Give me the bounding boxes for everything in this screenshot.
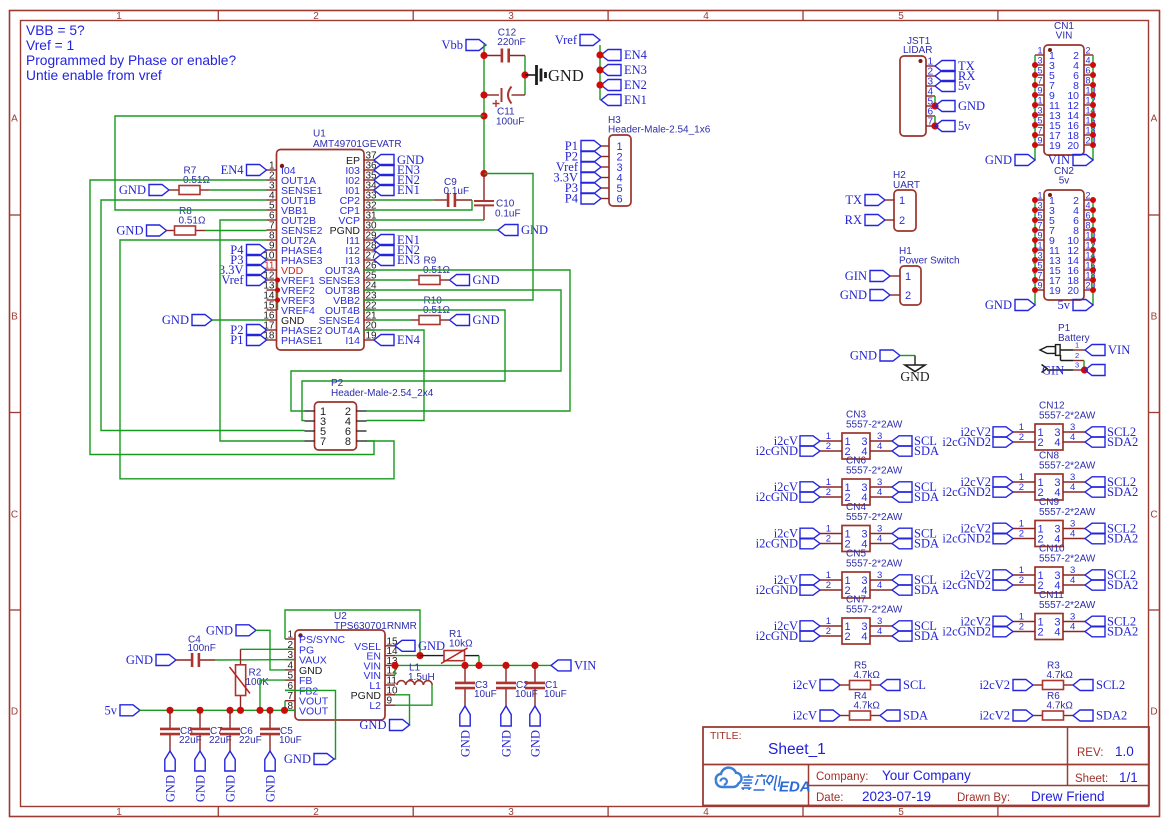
net flag GND below C2 <box>500 706 514 757</box>
svg-text:Vref: Vref <box>221 273 244 287</box>
note text block <box>26 23 236 83</box>
svg-text:VIN: VIN <box>1108 343 1130 357</box>
svg-text:LIDAR: LIDAR <box>903 45 932 56</box>
svg-text:C: C <box>1150 510 1157 521</box>
svg-text:P1: P1 <box>230 333 243 347</box>
svg-text:4: 4 <box>1070 529 1075 540</box>
net flag 5v at JST1 pin7 <box>935 119 971 133</box>
svg-text:Sheet_1: Sheet_1 <box>768 741 826 758</box>
net flags i2cV2/i2cGND2 at CN10 <box>942 568 1013 592</box>
wire R8 to U1 pin7 <box>205 230 267 232</box>
H1 pins 1-2 <box>890 271 911 302</box>
net flags i2cV/i2cGND at CN6 <box>756 480 820 504</box>
svg-text:VIN: VIN <box>574 658 596 672</box>
svg-text:GND: GND <box>116 224 143 238</box>
wire CN2 left bus <box>1034 200 1036 305</box>
svg-text:i2cV: i2cV <box>793 678 817 692</box>
label H3 value <box>608 125 711 136</box>
svg-text:GND: GND <box>459 730 473 757</box>
svg-text:VIN: VIN <box>1048 153 1070 167</box>
CN6 pins 1-4 <box>820 477 892 504</box>
P1 pin numbers <box>1075 341 1079 370</box>
svg-text:U1: U1 <box>313 129 326 140</box>
svg-text:i2cGND: i2cGND <box>756 444 798 458</box>
svg-text:i2cGND: i2cGND <box>756 629 798 643</box>
svg-text:19: 19 <box>366 331 378 342</box>
CN11 pins 1-4 <box>1013 612 1085 639</box>
title block Date label <box>816 792 844 804</box>
net flag P1 at H3 pin 1 <box>565 139 601 153</box>
svg-text:Battery: Battery <box>1058 333 1090 344</box>
connector CN11 5557-2*2AW <box>1035 614 1063 640</box>
P1 pin3 lead <box>1073 369 1085 371</box>
svg-text:GND: GND <box>164 775 178 802</box>
H3 pin 5 number <box>617 183 623 195</box>
svg-text:i2cGND2: i2cGND2 <box>942 578 991 592</box>
capacitor C8 22uF <box>160 710 202 751</box>
junction VREF2 <box>275 287 280 292</box>
net flags SCL/SDA at CN6 <box>892 480 939 504</box>
net flags SCL/SDA at CN5 <box>892 573 939 597</box>
connector CN8 5557-2*2AW <box>1035 474 1063 500</box>
CN7 pins 1-4 <box>820 616 892 643</box>
svg-text:3: 3 <box>1075 361 1079 370</box>
svg-text:7: 7 <box>320 436 326 448</box>
svg-text:5v: 5v <box>1059 176 1070 187</box>
wire C10 bottom to VCP <box>374 219 484 221</box>
wire JST1 pin4-5 tie <box>934 96 936 106</box>
svg-text:6: 6 <box>617 194 623 206</box>
svg-text:0.1uF: 0.1uF <box>495 209 521 220</box>
resistor R2 100K <box>230 649 270 710</box>
svg-text:1: 1 <box>1037 191 1042 201</box>
svg-text:VIN: VIN <box>1056 31 1073 42</box>
junction C7 top <box>196 707 203 714</box>
junction Vbb wire to U1 <box>480 112 487 119</box>
net flag P4 at H3 pin 6 <box>565 192 601 206</box>
svg-text:GND: GND <box>473 273 500 287</box>
net flag P4 at U1 pin9 <box>230 243 266 257</box>
wire U1 pin6 to P2 pin7 <box>220 220 305 441</box>
svg-text:SCL: SCL <box>903 678 926 692</box>
wire JST1 pin6-7 tie <box>934 116 936 126</box>
CN8 pins 1-4 <box>1013 472 1085 499</box>
label CN7 value <box>846 605 903 616</box>
svg-text:5: 5 <box>1037 211 1042 221</box>
svg-text:10kΩ: 10kΩ <box>449 639 473 650</box>
svg-text:5: 5 <box>898 807 904 818</box>
wire U1 PGND to GND flag <box>374 229 498 231</box>
svg-text:4: 4 <box>877 580 882 591</box>
capacitor C5 10uF <box>260 710 302 751</box>
svg-text:SDA2: SDA2 <box>1107 435 1138 449</box>
title block TITLE label <box>710 730 742 742</box>
svg-text:4: 4 <box>1054 437 1060 449</box>
net flag P2 at H3 pin 2 <box>565 150 601 164</box>
junction U2 VIN pin13 <box>391 662 398 669</box>
net flag GND at R7 <box>119 183 169 197</box>
svg-text:SDA2: SDA2 <box>1107 578 1138 592</box>
svg-text:2: 2 <box>1038 437 1044 449</box>
title drawn by value <box>1031 789 1105 804</box>
net flag EN2 at U1 pin28 <box>374 243 420 257</box>
svg-text:1: 1 <box>1075 341 1079 350</box>
svg-text:Your Company: Your Company <box>882 768 971 783</box>
svg-text:2023-07-19: 2023-07-19 <box>862 789 931 804</box>
svg-text:4: 4 <box>1070 482 1075 493</box>
net flag EN1 at U1 pin34 <box>374 183 420 197</box>
net flags i2cV2/i2cGND2 at CN11 <box>942 615 1013 639</box>
capacitor C4 100nF <box>176 635 216 668</box>
wire Vref-EN chain <box>599 45 601 100</box>
svg-text:5: 5 <box>898 11 904 22</box>
net flag EN2 (chain) <box>601 78 647 92</box>
svg-text:SDA: SDA <box>914 629 939 643</box>
wire VREF1-VREF4 tie <box>277 280 279 310</box>
net flags i2cV2/i2cGND2 at CN12 <box>942 425 1013 449</box>
junction FB rail <box>256 707 263 714</box>
net flags i2cV/i2cGND at CN5 <box>756 573 820 597</box>
svg-text:PHASE1: PHASE1 <box>281 335 323 347</box>
inductor L1 1.5uH <box>397 663 435 686</box>
connector JST1 LIDAR <box>900 56 926 136</box>
svg-text:EN1: EN1 <box>624 93 647 107</box>
svg-text:AMT49701GEVATR: AMT49701GEVATR <box>313 139 402 150</box>
net flag Vbb <box>441 38 486 52</box>
net flag i2cV2 at R6 <box>979 709 1033 723</box>
svg-text:GND: GND <box>359 718 386 732</box>
svg-text:EN3: EN3 <box>397 253 420 267</box>
title rev value 1.0 <box>1115 744 1134 759</box>
svg-text:6: 6 <box>1086 211 1091 221</box>
title block Drawn By label <box>957 792 1010 804</box>
title block REV label <box>1077 747 1103 759</box>
label CN3 value <box>846 420 903 431</box>
svg-text:i2cGND2: i2cGND2 <box>942 625 991 639</box>
wire U1 pin25 to R9 <box>374 279 411 281</box>
net flags SCL2/SDA2 at CN8 <box>1085 475 1138 499</box>
svg-text:GND: GND <box>194 775 208 802</box>
net flags SCL/SDA at CN4 <box>892 527 939 551</box>
wire CN2 right bus <box>1092 200 1094 305</box>
net flag P3 at H3 pin 5 <box>565 181 601 195</box>
svg-text:5557-2*2AW: 5557-2*2AW <box>1039 600 1096 611</box>
net flag GND at C4 <box>126 653 176 667</box>
svg-text:1.5uH: 1.5uH <box>408 672 435 683</box>
svg-text:C: C <box>11 510 18 521</box>
battery P1 symbol <box>1040 345 1073 373</box>
net flag GND below C1 <box>529 706 543 757</box>
resistor R9 0.51ohm <box>411 256 450 285</box>
svg-text:2: 2 <box>826 534 831 545</box>
svg-text:RX: RX <box>845 213 862 227</box>
title block frame <box>703 727 1149 806</box>
net flag GND at U2 pin4 <box>206 623 256 637</box>
resistor R8 0.51ohm <box>167 206 206 235</box>
title block Sheet label <box>1075 773 1108 785</box>
connector H1 Power Switch <box>900 266 921 305</box>
svg-text:D: D <box>1150 707 1157 718</box>
svg-text:Header-Male-2.54_1x6: Header-Male-2.54_1x6 <box>608 125 711 136</box>
H3 pin 5 lead <box>601 187 609 189</box>
CN4 pins 1-4 <box>820 524 892 551</box>
svg-text:5v: 5v <box>1058 298 1071 312</box>
svg-text:EN2: EN2 <box>624 78 647 92</box>
wire U2 pin1 loop to EN <box>285 610 420 656</box>
title Sheet_1 <box>768 741 826 758</box>
junction JST1 pin7 <box>931 122 938 129</box>
label CN6 value <box>846 466 903 477</box>
wire U2 VIN pins tie <box>394 665 396 675</box>
junction EN4 chain <box>596 51 603 58</box>
junction R2 bottom <box>237 707 244 714</box>
net flag GND at U2 PGND <box>359 718 409 732</box>
label P2 <box>331 378 344 389</box>
net flag EN1 (chain) <box>601 93 647 107</box>
net flag GND at U2 VSEL <box>395 639 445 653</box>
capacitor C6 22uF <box>220 710 262 751</box>
svg-text:5v: 5v <box>958 79 971 93</box>
connector CN6 5557-2*2AW <box>842 479 870 505</box>
svg-text:100K: 100K <box>246 677 270 688</box>
svg-text:7: 7 <box>1037 76 1042 86</box>
net flag GIN at H1 pin1 <box>845 269 890 283</box>
svg-text:2: 2 <box>313 11 319 22</box>
net flag 5v at JST1 pin3 <box>935 79 971 93</box>
svg-text:Header-Male-2.54_2x4: Header-Male-2.54_2x4 <box>331 388 434 399</box>
capacitor C9 0.1uF <box>434 177 472 207</box>
junction C6 top <box>226 707 233 714</box>
net flags i2cV2/i2cGND2 at CN8 <box>942 475 1013 499</box>
svg-text:SDA: SDA <box>914 583 939 597</box>
net flags SCL/SDA at CN7 <box>892 619 939 643</box>
H3 pin 2 lead <box>601 156 609 158</box>
svg-text:5557-2*2AW: 5557-2*2AW <box>1039 554 1096 565</box>
label H2 <box>893 170 906 181</box>
wire P2 pin2 to U1 pin26 <box>364 270 570 411</box>
net flag GND at R8 <box>116 224 166 238</box>
svg-text:GND: GND <box>162 313 189 327</box>
junction EN3 chain <box>596 66 603 73</box>
wire U1 CP2 to C9 <box>374 199 434 201</box>
net flag EN1 at U1 pin29 <box>374 233 420 247</box>
connector H2 UART <box>894 190 916 231</box>
title sheet value 1/1 <box>1119 770 1138 785</box>
svg-text:SDA2: SDA2 <box>1096 709 1127 723</box>
junction EN-R1 <box>416 652 423 659</box>
capacitor C10 0.1uF <box>474 174 521 221</box>
label CN9 <box>1039 497 1059 508</box>
svg-text:i2cGND2: i2cGND2 <box>942 435 991 449</box>
svg-text:GND: GND <box>284 752 311 766</box>
wire U1 pin22 to P2 pin3 <box>302 310 505 421</box>
P1 pin1 lead <box>1073 349 1085 351</box>
svg-text:i2cGND: i2cGND <box>756 490 798 504</box>
svg-text:EN1: EN1 <box>397 183 420 197</box>
H3 pin 4 lead <box>601 177 609 179</box>
net flags SCL2/SDA2 at CN9 <box>1085 522 1138 546</box>
svg-text:2: 2 <box>1075 351 1079 360</box>
connector P2 Header-Male-2.54_2x4 <box>315 402 357 450</box>
svg-text:3: 3 <box>1037 201 1042 211</box>
net flag VIN at rail <box>551 658 596 672</box>
svg-text:2: 2 <box>826 441 831 452</box>
H2 pins 1-2 <box>885 195 905 227</box>
wire U2 FB2 to GND <box>285 690 336 759</box>
svg-text:1: 1 <box>116 11 122 22</box>
svg-text:4: 4 <box>861 631 867 643</box>
title company value <box>882 768 971 783</box>
svg-text:3: 3 <box>508 807 514 818</box>
svg-text:i2cV2: i2cV2 <box>979 709 1010 723</box>
title block Company label <box>816 771 868 783</box>
svg-text:3: 3 <box>508 11 514 22</box>
svg-text:EDA: EDA <box>779 779 811 796</box>
svg-text:2: 2 <box>1038 627 1044 639</box>
power ground symbol GND (top) <box>525 65 584 85</box>
svg-text:i2cGND2: i2cGND2 <box>942 532 991 546</box>
label CN5 <box>846 549 866 560</box>
H3 pin 2 number <box>617 152 623 164</box>
net flag TX at JST1 pin1 <box>935 59 975 73</box>
CN2 junction dots <box>1032 197 1096 293</box>
CN5 pins 1-4 <box>820 570 892 597</box>
label JST1 <box>907 36 931 47</box>
junction VREF1 <box>275 277 280 282</box>
wire U2 PGND down <box>395 695 410 725</box>
svg-text:0.1uF: 0.1uF <box>444 186 470 197</box>
svg-text:22uF: 22uF <box>179 735 202 746</box>
svg-text:2: 2 <box>826 487 831 498</box>
svg-text:D: D <box>11 707 18 718</box>
svg-text:2: 2 <box>899 215 905 227</box>
svg-text:GND: GND <box>126 653 153 667</box>
svg-text:4: 4 <box>877 441 882 452</box>
svg-text:VOUT: VOUT <box>299 705 329 717</box>
wire R1 to VIN line <box>478 656 480 666</box>
wire U1 pin24 to P2 pin1 <box>291 290 561 411</box>
junction C10 top <box>480 170 487 177</box>
wire R7 to U1 pin3 <box>209 189 267 191</box>
wire P2 pin4 to U1 pin20 <box>364 330 424 421</box>
svg-text:SDA: SDA <box>914 444 939 458</box>
net flag VIN at P1 pin1 <box>1085 343 1130 357</box>
net flag i2cV2 at R3 <box>979 678 1033 692</box>
svg-text:2: 2 <box>1086 191 1091 201</box>
svg-text:Vref = 1: Vref = 1 <box>26 38 74 53</box>
junction VOUT rail <box>281 707 288 714</box>
net flag GND at U2 FB2 <box>284 752 334 766</box>
svg-text:100nF: 100nF <box>188 643 216 654</box>
junction JST1 pin5 <box>931 102 938 109</box>
label H2 value <box>893 180 920 191</box>
net flag SDA2 at R6 <box>1073 709 1127 723</box>
svg-text:2: 2 <box>826 626 831 637</box>
svg-text:i2cV2: i2cV2 <box>979 678 1010 692</box>
svg-text:GND: GND <box>206 623 233 637</box>
label CN1 value <box>1056 31 1073 42</box>
net flag Vref (top) <box>555 33 600 47</box>
connector CN10 5557-2*2AW <box>1035 567 1063 593</box>
net flag VIN at CN1 right <box>1048 153 1093 167</box>
svg-text:4.7kΩ: 4.7kΩ <box>1047 701 1074 712</box>
svg-text:5: 5 <box>1037 66 1042 76</box>
label CN10 <box>1039 544 1065 555</box>
label CN8 value <box>1039 461 1096 472</box>
net flag GND at U1 pin30 <box>498 223 548 237</box>
label U2 value <box>334 621 417 632</box>
net flag GND at U1 pin16 <box>162 313 212 327</box>
wire L1 to L2 <box>395 685 432 705</box>
svg-text:8: 8 <box>345 436 351 448</box>
U1 right pins 37-19 <box>319 151 377 348</box>
svg-text:7: 7 <box>1037 221 1042 231</box>
net flag TX at H2 pin1 <box>845 193 885 207</box>
svg-text:2: 2 <box>826 580 831 591</box>
wire U1 pin4 to P2 pin5 <box>101 200 305 431</box>
svg-text:22uF: 22uF <box>209 735 232 746</box>
net flag GND at CN2 left <box>985 298 1035 312</box>
svg-text:1: 1 <box>899 195 905 207</box>
wire CN1 right bus <box>1092 55 1094 160</box>
wire U1 pin8 big loop <box>120 240 394 479</box>
svg-text:Drew Friend: Drew Friend <box>1031 789 1105 804</box>
svg-text:18: 18 <box>263 331 275 342</box>
CN10 pins 1-4 <box>1013 565 1085 592</box>
svg-text:i2cGND: i2cGND <box>756 583 798 597</box>
label CN2 <box>1054 166 1074 177</box>
svg-text:0.51Ω: 0.51Ω <box>179 216 206 227</box>
net flag GND below C5 <box>264 751 278 802</box>
net flags i2cV2/i2cGND2 at CN9 <box>942 522 1013 546</box>
svg-text:1: 1 <box>905 271 911 283</box>
svg-text:SDA: SDA <box>914 490 939 504</box>
svg-text:GND: GND <box>500 730 514 757</box>
svg-text:GND: GND <box>224 775 238 802</box>
resistor R3 4.7kohm <box>1033 661 1073 690</box>
net flags i2cV/i2cGND at CN7 <box>756 619 820 643</box>
wire C4 to VAUX <box>215 659 295 661</box>
svg-text:GND: GND <box>264 775 278 802</box>
net flag Vref at H3 pin 3 <box>556 160 601 174</box>
label CN5 value <box>846 559 903 570</box>
junction C5 top <box>266 707 273 714</box>
svg-text:9: 9 <box>1037 231 1042 241</box>
H3 pin 6 number <box>617 194 623 206</box>
svg-text:GND: GND <box>119 183 146 197</box>
junction C2 top <box>502 662 509 669</box>
svg-text:10uF: 10uF <box>544 689 567 700</box>
svg-text:2: 2 <box>1019 575 1024 586</box>
net flag 5v at CN2 right <box>1058 298 1094 312</box>
H3 pin 1 number <box>617 141 623 153</box>
resistor R6 4.7kohm <box>1033 691 1073 720</box>
svg-text:Vbb: Vbb <box>441 38 463 52</box>
svg-text:SCL2: SCL2 <box>1096 678 1125 692</box>
U2 left pins 1-8 <box>285 630 346 718</box>
H3 pin 4 number <box>617 173 623 185</box>
CN2 pin1 marker <box>1048 193 1052 197</box>
net flag P2 at U1 pin17 <box>230 323 266 337</box>
CN1 pin1 marker <box>1048 48 1052 52</box>
label P2 value <box>331 388 434 399</box>
svg-text:5557-2*2AW: 5557-2*2AW <box>846 512 903 523</box>
svg-text:5v: 5v <box>105 703 118 717</box>
connector CN7 5557-2*2AW <box>842 618 870 644</box>
label CN11 <box>1039 590 1064 601</box>
label CN9 value <box>1039 507 1096 518</box>
wire P1 pin2-3 tie <box>1083 361 1085 371</box>
